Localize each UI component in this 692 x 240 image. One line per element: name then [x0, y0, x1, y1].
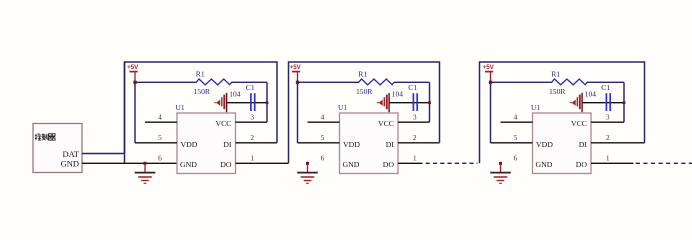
- wire DAT riser (node DAT): [124, 62, 126, 154]
- svg-text:DI: DI: [386, 140, 395, 149]
- svg-text:104: 104: [585, 89, 596, 98]
- wire DI routing: riser x=479.5, top rail, drop into pin 2 (LED3): [480, 62, 645, 163]
- svg-text:3: 3: [250, 113, 254, 122]
- svg-text:U1: U1: [338, 103, 347, 112]
- junction +5V rail (LED3): [489, 81, 492, 84]
- capacitor (polarized, 104) red symbol (LED1): [214, 89, 240, 112]
- wire DO (LED2) dashed continuation: [426, 162, 478, 164]
- op-amp / LED driver IC U1 (LED1): [176, 103, 236, 173]
- power +5V symbol (LED2): [290, 64, 302, 82]
- pin 5 VDD wire (LED2): [298, 142, 340, 144]
- svg-text:1: 1: [250, 153, 254, 162]
- svg-text:GND: GND: [536, 160, 553, 169]
- svg-text:6: 6: [158, 154, 162, 163]
- wire +5V riser to VDD (LED3): [490, 82, 492, 143]
- svg-text:R1: R1: [551, 70, 560, 79]
- svg-text:VCC: VCC: [215, 119, 231, 128]
- svg-text:DO: DO: [220, 160, 232, 169]
- junction capacitor rail / VCC vertical (LED2): [428, 101, 431, 104]
- ground symbol (LED1): [135, 162, 156, 184]
- svg-text:6: 6: [321, 154, 325, 163]
- wire +5V rail to R1 (LED1): [135, 81, 197, 83]
- wire +5V rail to R1 (LED2): [298, 81, 360, 83]
- pin 4 stub (LED3): [501, 121, 533, 123]
- svg-text:R1: R1: [196, 70, 205, 79]
- capacitor C1 (LED2): [408, 83, 417, 111]
- pin 4 stub (LED2): [308, 121, 340, 123]
- wire VCC vertical (LED3): [623, 82, 625, 122]
- wire R1 to VCC vertical (LED2): [394, 81, 430, 83]
- wire capacitor rail (LED3): [582, 102, 624, 104]
- controller box (控制器): [33, 124, 82, 173]
- resistor R1 (LED1) 150R: [194, 70, 232, 96]
- svg-text:3: 3: [606, 113, 610, 122]
- svg-text:U1: U1: [176, 103, 185, 112]
- pin 4 stub (LED1): [145, 121, 177, 123]
- wire DAT from controller: [82, 153, 125, 155]
- svg-text:VDD: VDD: [181, 140, 198, 149]
- svg-text:2: 2: [250, 133, 254, 142]
- svg-text:4: 4: [321, 113, 325, 122]
- svg-text:4: 4: [514, 113, 518, 122]
- svg-text:DO: DO: [576, 160, 588, 169]
- wire DO (LED2) solid segment: [398, 162, 423, 164]
- svg-text:GND: GND: [180, 160, 197, 169]
- svg-text:5: 5: [158, 133, 162, 142]
- wire DI routing: riser x=288.5, top rail, drop into pin 2 (LED2): [289, 62, 440, 163]
- svg-text:C1: C1: [601, 83, 610, 92]
- svg-text:1: 1: [606, 153, 610, 162]
- svg-text:150R: 150R: [549, 87, 566, 96]
- pin 2 DI wire (LED1): [236, 142, 278, 144]
- resistor R1 (LED2) 150R: [356, 70, 394, 96]
- junction +5V rail (LED2): [296, 81, 299, 84]
- pin 3 VCC wire (LED1): [236, 121, 268, 123]
- wire GND from controller to U1 pin 6 (LED1): [82, 162, 177, 164]
- wire +5V riser to VDD (LED2): [297, 82, 299, 143]
- wire capacitor rail (LED2): [389, 102, 430, 104]
- wire capacitor rail (LED1): [227, 102, 268, 104]
- ground symbol (LED2): [297, 162, 318, 184]
- wire DI routing: riser x=124.5, top rail, drop into pin 2 (LED1): [125, 62, 278, 163]
- svg-text:+5V: +5V: [127, 64, 139, 71]
- svg-text:2: 2: [606, 133, 610, 142]
- svg-text:150R: 150R: [356, 87, 373, 96]
- resistor R1 (LED3) 150R: [549, 70, 587, 96]
- wire DO (LED3) solid segment: [591, 162, 634, 164]
- svg-text:VCC: VCC: [571, 119, 587, 128]
- junction capacitor rail / VCC vertical (LED3): [623, 101, 626, 104]
- svg-text:104: 104: [392, 89, 403, 98]
- svg-text:VDD: VDD: [536, 140, 553, 149]
- svg-text:4: 4: [158, 113, 162, 122]
- power +5V symbol (LED3): [483, 64, 495, 82]
- capacitor C1 (LED3): [601, 83, 610, 111]
- wire +5V rail to R1 (LED3): [491, 81, 553, 83]
- capacitor (polarized, 104) red symbol (LED3): [570, 89, 596, 112]
- svg-text:3: 3: [413, 113, 417, 122]
- svg-text:5: 5: [321, 133, 325, 142]
- svg-text:5: 5: [514, 133, 518, 142]
- svg-text:U1: U1: [531, 103, 540, 112]
- pin 3 VCC wire (LED2): [398, 121, 430, 123]
- pin 5 VDD wire (LED1): [135, 142, 177, 144]
- capacitor (polarized, 104) red symbol (LED2): [377, 89, 403, 112]
- svg-text:R1: R1: [358, 70, 367, 79]
- op-amp / LED driver IC U1 (LED2): [338, 103, 398, 173]
- wire R1 to VCC vertical (LED3): [587, 81, 624, 83]
- svg-text:GND: GND: [343, 160, 360, 169]
- svg-text:VDD: VDD: [343, 140, 360, 149]
- svg-text:2: 2: [413, 133, 417, 142]
- pin 2 DI wire (LED2): [398, 142, 440, 144]
- svg-text:C1: C1: [408, 83, 417, 92]
- svg-text:GND: GND: [61, 158, 79, 168]
- svg-text:VCC: VCC: [378, 119, 394, 128]
- junction +5V rail (LED1): [133, 81, 136, 84]
- wire VCC vertical (LED1): [266, 82, 268, 122]
- power +5V symbol (LED1): [127, 64, 139, 82]
- svg-text:150R: 150R: [194, 87, 211, 96]
- capacitor C1 (LED1): [246, 83, 255, 111]
- pin 3 VCC wire (LED3): [591, 121, 624, 123]
- svg-text:DO: DO: [383, 160, 395, 169]
- pin 5 VDD wire (LED3): [491, 142, 533, 144]
- svg-text:6: 6: [514, 154, 518, 163]
- svg-text:1: 1: [413, 153, 417, 162]
- wire DO (LED1) to next stage: [236, 162, 289, 164]
- wire DO (LED3) dashed continuation: [636, 162, 692, 164]
- wire VCC vertical (LED2): [429, 82, 431, 122]
- svg-text:DI: DI: [223, 140, 232, 149]
- svg-text:104: 104: [229, 89, 240, 98]
- ground symbol (LED3): [490, 162, 511, 184]
- wire +5V riser to VDD (LED1): [134, 82, 136, 143]
- svg-text:C1: C1: [246, 83, 255, 92]
- op-amp / LED driver IC U1 (LED3): [531, 103, 591, 173]
- svg-text:+5V: +5V: [483, 64, 495, 71]
- pin 2 DI wire (LED3): [591, 142, 645, 144]
- svg-text:DI: DI: [579, 140, 588, 149]
- junction capacitor rail / VCC vertical (LED1): [266, 101, 269, 104]
- wire R1 to VCC vertical (LED1): [231, 81, 267, 83]
- svg-text:+5V: +5V: [290, 64, 302, 71]
